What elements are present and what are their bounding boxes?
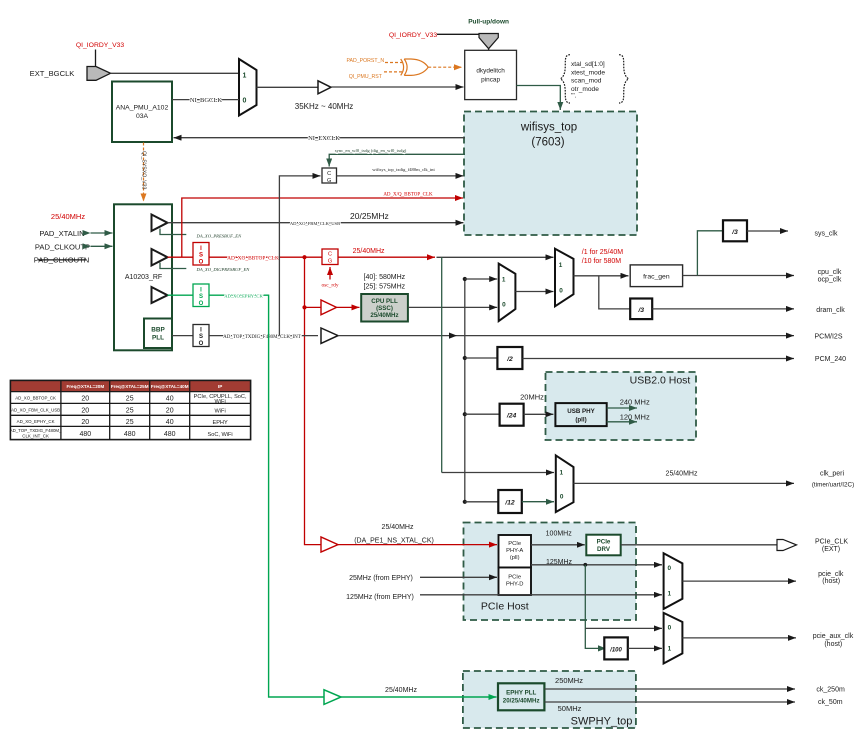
svg-text:35KHz ~ 40MHz: 35KHz ~ 40MHz: [295, 102, 353, 111]
svg-text:SWPHY_top: SWPHY_top: [571, 716, 633, 728]
svg-text:480: 480: [79, 431, 91, 438]
svg-text:50MHz: 50MHz: [558, 704, 582, 713]
svg-text:SoC, WiFi: SoC, WiFi: [208, 432, 233, 438]
svg-text:25: 25: [126, 407, 134, 414]
svg-text:AD_XO_BBTOP_CK: AD_XO_BBTOP_CK: [15, 396, 56, 401]
svg-text:(7603): (7603): [531, 137, 564, 149]
svg-text:osc_rdy: osc_rdy: [321, 283, 338, 289]
svg-text:20/25MHz: 20/25MHz: [350, 211, 389, 221]
svg-text:Freq@XTAL=20M: Freq@XTAL=20M: [66, 384, 104, 389]
svg-text:WiFi: WiFi: [215, 408, 226, 414]
svg-text:125MHz (from EPHY): 125MHz (from EPHY): [346, 594, 414, 601]
svg-text:20/25/40MHz: 20/25/40MHz: [503, 698, 540, 705]
svg-text:20: 20: [81, 407, 89, 414]
svg-text:20: 20: [166, 407, 174, 414]
svg-text:PCIe_CLK: PCIe_CLK: [815, 539, 848, 546]
svg-text:wifisys_top: wifisys_top: [520, 122, 577, 134]
svg-text:CPU PLL: CPU PLL: [371, 298, 398, 305]
svg-text:20MHz: 20MHz: [520, 392, 544, 401]
svg-text:(EXT): (EXT): [822, 546, 840, 553]
svg-text:USB PHY: USB PHY: [567, 408, 595, 415]
svg-text:03A: 03A: [136, 113, 149, 120]
svg-text:AD_TOP_TXDIG_F480M_CLK_INT: AD_TOP_TXDIG_F480M_CLK_INT: [223, 335, 301, 340]
svg-text:AD_XO_FBM_CLK_USB: AD_XO_FBM_CLK_USB: [11, 407, 60, 412]
svg-text:1: 1: [243, 73, 247, 80]
svg-text:dram_clk: dram_clk: [816, 307, 845, 314]
svg-text:240 MHz: 240 MHz: [620, 398, 650, 407]
svg-text:AD_XO_EPHY_CK: AD_XO_EPHY_CK: [224, 293, 263, 298]
svg-text:0: 0: [668, 625, 672, 632]
svg-text:/24: /24: [506, 413, 517, 420]
svg-text:Freq@XTAL=25M: Freq@XTAL=25M: [111, 384, 149, 389]
svg-text:PCM/I2S: PCM/I2S: [814, 333, 842, 340]
svg-text:dkydelitch: dkydelitch: [476, 68, 505, 75]
svg-text:QI_IORDY_V33: QI_IORDY_V33: [389, 32, 438, 39]
svg-text:A10203_RF: A10203_RF: [125, 274, 162, 281]
svg-text:/3: /3: [637, 307, 644, 314]
svg-text:25/40MHz: 25/40MHz: [370, 312, 398, 319]
svg-text:/10 for 580M: /10 for 580M: [582, 258, 621, 265]
svg-text:QI_PMU_RST: QI_PMU_RST: [349, 74, 383, 80]
svg-text:25: 25: [126, 396, 134, 403]
svg-text:1: 1: [668, 590, 672, 597]
svg-text:S: S: [199, 334, 203, 340]
svg-text:pcie_aux_clk: pcie_aux_clk: [813, 633, 854, 640]
svg-text:C: C: [328, 252, 332, 258]
svg-text:PAD_XTALIN: PAD_XTALIN: [39, 229, 84, 238]
svg-text:25/40MHz: 25/40MHz: [353, 248, 385, 255]
svg-text:(pll): (pll): [510, 555, 520, 561]
svg-text:O: O: [199, 259, 204, 265]
svg-text:(SSC): (SSC): [376, 305, 393, 312]
svg-text:NI_EXCLK: NI_EXCLK: [308, 135, 340, 142]
svg-text:(host): (host): [824, 641, 842, 648]
svg-text:G: G: [327, 178, 331, 184]
svg-text:PAD_CLKOUTP: PAD_CLKOUTP: [35, 242, 90, 251]
svg-text:pcie_clk: pcie_clk: [818, 571, 844, 578]
svg-text:sync_en_wf0_txdg (dig_en_wf0_t: sync_en_wf0_txdg (dig_en_wf0_txdg): [335, 148, 407, 153]
svg-text:0: 0: [559, 287, 563, 294]
svg-text:CLK_INT_CK: CLK_INT_CK: [22, 434, 49, 439]
svg-text:PHY-D: PHY-D: [506, 582, 524, 588]
svg-text:'''.: '''.: [571, 93, 577, 100]
svg-text:250MHz: 250MHz: [555, 676, 583, 685]
svg-text:G: G: [328, 259, 332, 265]
svg-text:frac_gen: frac_gen: [643, 274, 670, 281]
svg-text:PAD_PORST_N: PAD_PORST_N: [346, 58, 384, 64]
svg-text:C: C: [327, 171, 331, 177]
svg-text:O: O: [199, 301, 204, 307]
svg-text:25/40MHz: 25/40MHz: [666, 471, 698, 478]
svg-text:ck_50m: ck_50m: [818, 699, 843, 706]
svg-text:1: 1: [559, 262, 563, 269]
svg-text:BBP: BBP: [151, 327, 165, 334]
svg-text:0: 0: [560, 494, 564, 501]
svg-text:clk_peri: clk_peri: [820, 471, 845, 478]
svg-text:40: 40: [166, 419, 174, 426]
svg-text:(host): (host): [822, 578, 840, 585]
svg-text:pincap: pincap: [481, 77, 500, 84]
svg-text:xtest_mode: xtest_mode: [571, 69, 605, 76]
svg-text:480: 480: [124, 431, 136, 438]
svg-text:DA_XO_DIGPRESBUF_EN: DA_XO_DIGPRESBUF_EN: [196, 267, 251, 272]
svg-text:25MHz (from EPHY): 25MHz (from EPHY): [349, 575, 413, 582]
svg-text:S: S: [199, 253, 203, 259]
svg-text:480: 480: [164, 431, 176, 438]
svg-text:NI_BGCLK: NI_BGCLK: [190, 97, 222, 104]
svg-text:100MHz: 100MHz: [546, 530, 573, 537]
svg-text:/100: /100: [609, 647, 622, 653]
svg-text:O: O: [199, 341, 204, 347]
svg-text:Freq@XTAL=40M: Freq@XTAL=40M: [151, 384, 189, 389]
svg-text:AD_TOP_TXDIG_F480M_: AD_TOP_TXDIG_F480M_: [10, 428, 62, 433]
svg-text:20: 20: [81, 419, 89, 426]
svg-text:QI_SYSXO_V33: QI_SYSXO_V33: [141, 151, 147, 189]
svg-text:[40]: 580MHz: [40]: 580MHz: [364, 274, 406, 281]
svg-text:Pull-up/down: Pull-up/down: [468, 19, 509, 26]
svg-text:AD_X/Q_BBTOP_CLK: AD_X/Q_BBTOP_CLK: [383, 192, 433, 197]
svg-text:/3: /3: [731, 229, 738, 236]
svg-text:(DA_PE1_NS_XTAL_CK): (DA_PE1_NS_XTAL_CK): [354, 538, 434, 545]
svg-text:1: 1: [502, 277, 506, 284]
svg-text:PCIe Host: PCIe Host: [481, 601, 529, 613]
svg-text:40: 40: [166, 396, 174, 403]
svg-text:PLL: PLL: [152, 335, 164, 342]
svg-text:AD_XO_BBTOP_CLK: AD_XO_BBTOP_CLK: [227, 255, 279, 261]
svg-text:20: 20: [81, 396, 89, 403]
svg-text:scan_mod: scan_mod: [571, 78, 602, 85]
svg-text:0: 0: [243, 98, 247, 105]
svg-text:AD_XO_EPHY_CK: AD_XO_EPHY_CK: [17, 419, 55, 424]
svg-text:sys_clk: sys_clk: [815, 231, 838, 238]
svg-text:120 MHz: 120 MHz: [620, 412, 650, 421]
svg-text:[25]: 575MHz: [25]: 575MHz: [364, 284, 406, 291]
svg-text:0: 0: [502, 301, 506, 308]
svg-text:EXT_BGCLK: EXT_BGCLK: [30, 69, 75, 78]
svg-text:/12: /12: [504, 499, 515, 506]
svg-text:25/40MHz: 25/40MHz: [51, 212, 85, 221]
svg-text:ocp_clk: ocp_clk: [818, 277, 842, 284]
svg-text:(timer/uart/I2C): (timer/uart/I2C): [812, 481, 854, 488]
svg-text:25/40MHz: 25/40MHz: [382, 524, 414, 531]
svg-text:25/40MHz: 25/40MHz: [385, 687, 417, 694]
svg-text:ANA_PMU_A102: ANA_PMU_A102: [116, 105, 169, 112]
svg-text:DRV: DRV: [597, 546, 611, 553]
svg-text:25: 25: [126, 419, 134, 426]
svg-text:PHY-A: PHY-A: [506, 548, 523, 554]
svg-text:PCIe: PCIe: [508, 541, 521, 547]
svg-text:EPHY: EPHY: [212, 420, 228, 426]
svg-text:1: 1: [560, 470, 564, 477]
svg-text:AD_XO_FBM_CLK_USB: AD_XO_FBM_CLK_USB: [290, 221, 340, 226]
svg-text:wifisys_top_txdig_f480m_clk_in: wifisys_top_txdig_f480m_clk_int: [372, 167, 435, 172]
svg-text:IP: IP: [218, 384, 222, 389]
svg-text:USB2.0 Host: USB2.0 Host: [630, 375, 691, 387]
svg-text:S: S: [199, 294, 203, 300]
svg-text:EPHY PLL: EPHY PLL: [506, 690, 536, 697]
svg-text:WiFi: WiFi: [215, 399, 226, 405]
svg-text:1: 1: [668, 646, 672, 653]
svg-text:0: 0: [668, 565, 672, 572]
svg-text:/1 for 25/40M: /1 for 25/40M: [582, 249, 623, 256]
svg-text:xtal_sd[1:0]: xtal_sd[1:0]: [571, 61, 605, 68]
svg-text:ck_250m: ck_250m: [816, 687, 845, 694]
svg-text:PCIe: PCIe: [597, 539, 611, 546]
svg-text:QI_IORDY_V33: QI_IORDY_V33: [76, 42, 125, 49]
svg-text:/2: /2: [506, 356, 513, 363]
svg-text:DA_XO_PRESBUF_EN: DA_XO_PRESBUF_EN: [196, 234, 243, 239]
svg-text:(pll): (pll): [575, 417, 586, 424]
svg-text:cpu_clk: cpu_clk: [818, 269, 842, 276]
svg-text:PCM_240: PCM_240: [815, 356, 846, 363]
svg-text:PCIe: PCIe: [508, 575, 521, 581]
